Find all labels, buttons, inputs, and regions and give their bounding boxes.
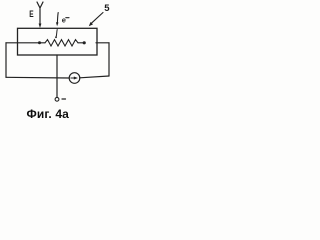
svg-text:E: E bbox=[29, 9, 33, 20]
terminal (open circle) bbox=[55, 97, 59, 101]
wire: right vertical bbox=[108, 43, 110, 76]
electron arrow bbox=[56, 13, 59, 23]
node B (dot / flow arrowhead) bbox=[83, 41, 86, 44]
wire: center vertical to terminal bbox=[56, 55, 58, 97]
meter arrow bbox=[71, 77, 75, 79]
meter G (circle) bbox=[69, 73, 80, 84]
resistor bbox=[45, 40, 78, 46]
wire: bottom right segment bbox=[80, 76, 109, 78]
svg-text:5: 5 bbox=[104, 3, 110, 14]
wire: left vertical bbox=[5, 43, 7, 78]
wire: interior left bbox=[18, 42, 39, 44]
wire: bottom left segment bbox=[6, 76, 69, 79]
minus sign bbox=[62, 98, 66, 100]
field arrow E bbox=[37, 2, 43, 25]
sample box bbox=[18, 28, 98, 55]
svg-text:Фиг. 4а: Фиг. 4а bbox=[27, 107, 70, 120]
leader arrow 5 bbox=[91, 13, 103, 24]
node A (junction dot) bbox=[38, 41, 41, 44]
wire: left stub bbox=[6, 42, 18, 44]
wire: resistor to node B bbox=[78, 42, 83, 44]
svg-text:e: e bbox=[62, 15, 66, 24]
wire: right stub through wall bbox=[96, 42, 109, 44]
electron arrow tail inside box bbox=[56, 30, 57, 37]
wire: dot to resistor bbox=[41, 42, 45, 44]
